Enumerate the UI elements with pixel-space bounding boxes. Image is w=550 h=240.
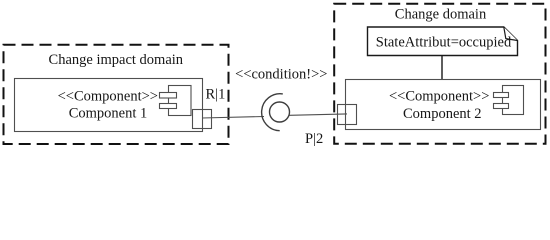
svg-text:StateAttribut=occupied: StateAttribut=occupied — [376, 35, 512, 51]
svg-text:Component 2: Component 2 — [403, 106, 482, 122]
svg-text:<<Component>>: <<Component>> — [58, 89, 158, 105]
svg-text:Change impact domain: Change impact domain — [49, 52, 184, 68]
svg-text:P|2: P|2 — [305, 131, 323, 147]
svg-text:Change domain: Change domain — [395, 7, 487, 23]
svg-text:<<condition!>>: <<condition!>> — [235, 67, 327, 83]
svg-text:<<Component>>: <<Component>> — [389, 88, 489, 104]
svg-text:Component 1: Component 1 — [69, 105, 148, 121]
svg-text:R|1: R|1 — [206, 86, 226, 102]
